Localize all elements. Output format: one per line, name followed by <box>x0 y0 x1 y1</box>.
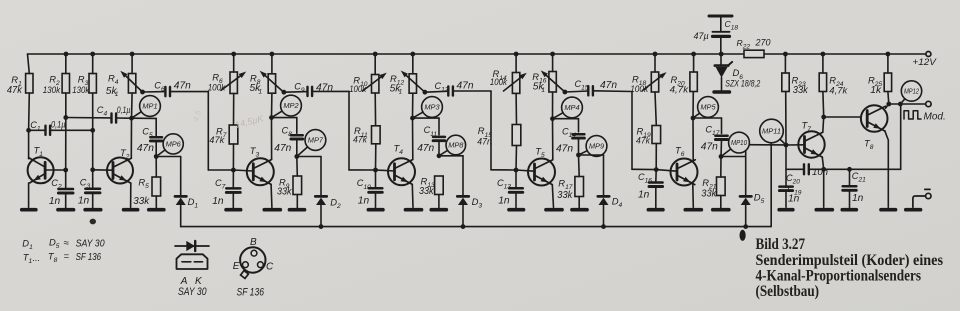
wire D2 to bus <box>319 205 324 229</box>
ground (T4 emitter) <box>406 208 422 212</box>
wire C11 to node <box>437 141 442 158</box>
wire T4 base <box>376 170 395 171</box>
wire diode bus (sync line) <box>181 143 772 227</box>
wire D3 to bus <box>461 205 466 229</box>
measure point MP3 <box>413 97 443 119</box>
capacitor C18 47u (electrolytic to supply) <box>709 16 732 54</box>
label R14 100k <box>490 68 508 88</box>
label R1 47k <box>7 74 23 96</box>
wire C17 to node <box>719 140 724 159</box>
label T1 <box>34 145 44 159</box>
svg-text:MP8: MP8 <box>448 141 464 150</box>
resistor R20 4,7k <box>690 72 697 92</box>
ground (R5) <box>149 208 164 212</box>
svg-text:33k: 33k <box>701 188 717 199</box>
capacitor C15 47n (coupling) <box>565 86 632 95</box>
wire R10-R11 column <box>373 52 378 126</box>
symbol square wave + label Mod. <box>904 111 946 123</box>
wire T5 emitter <box>552 185 553 208</box>
svg-text:1n: 1n <box>78 196 90 207</box>
label T5 <box>535 145 545 159</box>
wire T5 base <box>516 170 535 171</box>
capacitor C13 1n <box>509 170 523 192</box>
wire T8 base <box>824 116 861 118</box>
wire C6 to T3 base network <box>208 92 233 170</box>
measure point MP10 <box>721 132 749 156</box>
label C15 47n <box>575 79 618 92</box>
resistor R24 4,7k <box>819 73 826 92</box>
resistor R5 33k <box>152 177 161 196</box>
label C1 0,1u <box>30 120 66 133</box>
terminal battery minus <box>913 189 931 207</box>
svg-text:47k: 47k <box>353 135 368 146</box>
transistor T5 <box>528 159 555 186</box>
svg-text:SF 136: SF 136 <box>76 252 102 263</box>
svg-text:47k: 47k <box>636 135 651 146</box>
wire T6 collector column <box>691 92 696 160</box>
wire C21 to ground <box>849 191 851 209</box>
resistor R15 47n <box>512 125 521 146</box>
measure point MP4 <box>553 97 583 119</box>
label R2 130k <box>43 73 62 96</box>
wire R24 top <box>821 52 826 73</box>
label C2 1n <box>49 178 62 207</box>
ground (R21) <box>713 208 729 212</box>
capacitor C6 47n (coupling) <box>143 87 209 96</box>
wire T4 collector column <box>410 93 415 159</box>
capacitor C9 47n (coupling) <box>284 87 349 96</box>
measure point MP2 <box>272 95 302 117</box>
wire C20/C21 emitter bus <box>824 167 901 172</box>
label C17 47n <box>701 124 720 152</box>
potentiometer R18 100k <box>642 72 666 92</box>
resistor R7 47k <box>229 125 238 144</box>
label C11 47n <box>417 125 437 154</box>
resistor R23 33k <box>782 73 789 92</box>
ground (C7) <box>226 208 241 212</box>
wire R18-R19 column <box>653 52 658 126</box>
node C5 branch <box>132 118 157 136</box>
wire C9 to T4 base network <box>349 91 376 170</box>
svg-text:1k: 1k <box>870 85 882 96</box>
potentiometer R16 5k1 <box>541 70 565 92</box>
label C18 47u <box>694 19 739 41</box>
capacitor C20 10n (with wire) <box>786 164 824 174</box>
label C14 47n <box>556 126 576 154</box>
label R10 100k <box>349 75 368 96</box>
svg-text:Mod.: Mod. <box>924 112 946 123</box>
ground (T6 emitter) <box>685 208 701 212</box>
svg-text:47n: 47n <box>174 81 191 92</box>
measure point MP9 <box>579 136 607 157</box>
resistor R11 47k <box>372 126 381 144</box>
wire +12V supply rail <box>28 53 926 55</box>
measure point MP11 <box>760 119 786 145</box>
ground (T3 emitter) <box>264 208 280 212</box>
svg-text:33k: 33k <box>133 196 150 207</box>
resistor R13 33k <box>435 176 444 195</box>
wire R15 to T5 base <box>514 146 519 173</box>
capacitor C11 47n <box>433 137 445 141</box>
resistor R17 33k <box>575 177 584 197</box>
svg-text:≈: ≈ <box>64 238 70 249</box>
label R8 5k1 <box>250 73 263 96</box>
ground (battery minus) <box>906 208 921 212</box>
node R4 wiper <box>140 90 145 95</box>
svg-text:1: 1 <box>115 91 119 98</box>
svg-text:B: B <box>250 237 257 248</box>
svg-text:130k: 130k <box>72 85 90 96</box>
node R12 wiper <box>423 90 428 95</box>
transistor T4 <box>388 158 415 185</box>
svg-text:MP2: MP2 <box>283 101 298 110</box>
capacitor C14 47n <box>573 134 585 138</box>
svg-text:0,1µ: 0,1µ <box>117 105 131 116</box>
wire to D2 <box>297 157 321 195</box>
svg-text:33k: 33k <box>793 85 809 96</box>
ground (T2 emitter) <box>124 208 138 212</box>
wire D5 to bus <box>743 205 748 229</box>
label R25 1k <box>868 75 882 96</box>
resistor R3 130k <box>89 74 96 94</box>
label C9 47n <box>294 82 333 95</box>
wire R9 column <box>296 157 299 209</box>
svg-text:MP3: MP3 <box>424 103 440 112</box>
svg-text:1n: 1n <box>852 193 864 204</box>
wire T3 collector column <box>269 93 274 159</box>
ground (C3) <box>85 208 101 212</box>
label R20 4,7k <box>670 74 690 96</box>
label R22 270 <box>737 38 771 51</box>
wire R13 column <box>438 195 440 209</box>
wire to D1 <box>156 157 181 197</box>
svg-text:MP9: MP9 <box>589 142 604 151</box>
wire R2/T1-base column <box>63 52 68 189</box>
node C14 branch <box>553 119 579 132</box>
label R3 130k <box>72 73 90 96</box>
wire R17 column <box>578 155 581 208</box>
zener diode D6 SZX18/8,2 <box>715 52 732 91</box>
label D2 <box>330 196 341 210</box>
label C5 47n <box>137 127 154 155</box>
terminal Mod output <box>926 101 931 106</box>
label T4 <box>394 143 404 157</box>
diode D3 <box>457 196 468 205</box>
svg-text:47n: 47n <box>701 141 718 152</box>
ground (T1 emitter) <box>22 208 36 212</box>
label R24 4,7k <box>829 75 848 97</box>
wire R20 top <box>691 52 696 72</box>
capacitor C8 47n <box>291 135 303 139</box>
capacitor C2 1n <box>58 189 73 193</box>
node C8 branch <box>272 118 297 134</box>
ground (C16) <box>648 208 663 212</box>
svg-text:100k: 100k <box>490 77 508 88</box>
capacitor C5 47n <box>150 137 162 141</box>
svg-text:47n: 47n <box>316 82 333 93</box>
wire R25 top <box>886 52 891 73</box>
svg-text:47k: 47k <box>7 85 23 96</box>
transistor T6 <box>671 159 698 186</box>
svg-text:270: 270 <box>755 38 771 48</box>
node C17 branch <box>693 118 722 133</box>
wire T5 collector column <box>550 92 555 160</box>
wire T2 base <box>93 169 113 171</box>
ground (T8 emitter) <box>881 208 896 212</box>
label R15 47n <box>477 125 492 147</box>
label D3 <box>472 196 483 210</box>
svg-text:47n: 47n <box>417 143 434 154</box>
svg-text:1n: 1n <box>638 189 650 200</box>
measure point MP1 <box>132 96 161 119</box>
wire R8 top <box>270 52 275 74</box>
wire R21 column <box>720 157 722 209</box>
svg-text:1n: 1n <box>498 195 510 206</box>
wire T7 collector to node <box>821 92 826 133</box>
symbol SAY30 diode <box>175 241 209 251</box>
ground (C13) <box>509 208 524 212</box>
svg-text:MP1: MP1 <box>142 102 157 111</box>
svg-text:1n: 1n <box>49 196 61 207</box>
wire Mod output <box>889 102 926 107</box>
svg-text:47n: 47n <box>477 136 492 147</box>
label R17 33k <box>557 177 573 201</box>
label D6 SZX 18/8,2 <box>725 67 760 88</box>
capacitor C7 1n <box>226 170 240 192</box>
resistor R25 1k <box>884 73 891 92</box>
label C19 1n <box>788 184 802 205</box>
svg-text:MP12: MP12 <box>904 89 919 96</box>
svg-text:100k: 100k <box>630 84 649 95</box>
label T7 <box>802 119 812 133</box>
label C16 1n <box>638 172 652 201</box>
wire output feedback <box>900 104 902 169</box>
label C7 1n <box>212 178 225 207</box>
wire C8 to node <box>294 139 299 159</box>
svg-text:=: = <box>64 251 70 262</box>
label C3 1n <box>78 178 91 207</box>
capacitor C1 0,1u (cross-coupling) <box>29 126 93 135</box>
wire C2 to ground <box>65 193 67 208</box>
svg-text:MP7: MP7 <box>308 136 324 145</box>
wire T7 emitter <box>821 157 826 207</box>
svg-text:0,1µ: 0,1µ <box>51 120 66 131</box>
capacitor C17 4,7n <box>715 136 727 140</box>
wire C13 to ground <box>515 193 517 209</box>
svg-text:MP6: MP6 <box>166 140 182 149</box>
measure point MP12 <box>900 81 921 104</box>
ground (T7 emitter) <box>816 208 832 212</box>
capacitor C4 0,1u (cross-coupling) <box>66 113 134 122</box>
resistor R9 33k <box>293 176 302 195</box>
label T8 <box>864 138 874 152</box>
capacitor C10 1n <box>369 170 383 192</box>
wire T4 emitter <box>411 184 414 207</box>
svg-text:100k: 100k <box>349 84 367 95</box>
wire to D5 and T7 base <box>721 145 786 195</box>
wire D1 to bus <box>180 205 182 226</box>
wire T1 collector column (R1) <box>26 54 31 159</box>
svg-text:1n: 1n <box>212 196 224 207</box>
svg-text:33k: 33k <box>277 187 292 198</box>
ground (T5 emitter) <box>546 208 562 212</box>
wire C19 to ground <box>785 192 787 208</box>
legend transistors T1..T8 = SF136 <box>23 251 102 265</box>
wire C3 to ground <box>92 193 94 208</box>
terminal +12V <box>912 52 937 69</box>
ground (C2) <box>58 208 74 212</box>
capacitor C12 47n (coupling) <box>425 86 491 95</box>
svg-text:4,7k: 4,7k <box>670 85 690 96</box>
label R21 33k <box>701 177 717 199</box>
label D1 <box>188 196 199 210</box>
wire R12 top <box>410 52 415 74</box>
svg-text:4,7k: 4,7k <box>829 85 848 96</box>
label R13 33k <box>419 176 435 197</box>
svg-text:C: C <box>266 262 274 273</box>
svg-text:1: 1 <box>541 87 545 94</box>
svg-text:100k: 100k <box>208 82 227 93</box>
ground (below D6) <box>714 90 730 93</box>
svg-text:+12V: +12V <box>912 57 937 68</box>
svg-text:47n: 47n <box>556 144 573 155</box>
wire R3/T2-base column <box>90 52 95 189</box>
svg-text:...: ... <box>33 253 41 263</box>
svg-text:(Selbstbau): (Selbstbau) <box>756 281 820 300</box>
svg-text:SF 136: SF 136 <box>237 287 265 299</box>
label C10 1n <box>357 178 371 206</box>
label R5 33k <box>133 177 150 208</box>
svg-text:1n: 1n <box>788 193 800 204</box>
label C13 1n <box>497 178 511 207</box>
svg-text:47n: 47n <box>457 81 474 92</box>
legend diodes D1..D5 = SAY30 <box>22 237 105 251</box>
wire R14-R15 column <box>514 52 519 125</box>
wire R23 column <box>783 52 788 188</box>
measure point MP5 <box>693 97 718 118</box>
label D5 <box>754 191 765 205</box>
node R16 wiper <box>563 90 568 95</box>
wire R5 column <box>155 157 157 209</box>
scan artifact mark <box>740 230 746 241</box>
label T3 <box>250 145 260 159</box>
capacitor C3 1n <box>85 189 100 193</box>
label R6 100k <box>208 72 227 94</box>
svg-text:47n: 47n <box>137 143 154 154</box>
diode D5 <box>740 196 751 205</box>
resistor R1 47k <box>26 74 33 94</box>
capacitor C16 1n <box>649 170 663 187</box>
symbol SF136 package <box>240 247 265 278</box>
symbol SAY30 package outline <box>177 254 208 269</box>
ground (R17) <box>572 208 587 212</box>
wire T7 base <box>786 144 805 146</box>
label C8 47n <box>274 125 292 154</box>
wire T3 base <box>233 170 253 171</box>
wire R7 to T3 base <box>231 144 236 172</box>
svg-text:130k: 130k <box>43 85 62 96</box>
wire to D4 <box>579 155 604 195</box>
potentiometer R10 100k <box>363 73 387 93</box>
label R19 47k <box>636 126 651 147</box>
wire R4 column (T2 collector) <box>130 52 135 159</box>
svg-text:47n: 47n <box>274 143 291 154</box>
diode D4 <box>598 196 609 205</box>
resistor R2 130k <box>62 74 69 94</box>
svg-text:47µ: 47µ <box>694 31 709 41</box>
caption Bild 3.27 <box>756 234 944 300</box>
transistor T2 <box>107 158 133 184</box>
svg-text:E: E <box>233 261 240 272</box>
label D4 <box>612 196 623 210</box>
label C20 10n <box>786 167 828 186</box>
svg-text:47n: 47n <box>600 80 617 91</box>
node C11 branch <box>413 118 440 135</box>
transistor T3 <box>247 158 274 185</box>
label SF136 pins B E C <box>233 237 274 273</box>
svg-text:SAY 30: SAY 30 <box>76 239 105 250</box>
transistor T8 <box>861 105 888 132</box>
label R9 33k <box>277 176 292 197</box>
diode D1 <box>175 196 186 205</box>
wire T8 emitter to ground <box>885 131 889 208</box>
label SF 136 <box>237 287 265 299</box>
svg-text:MP11: MP11 <box>762 127 781 136</box>
label C4 0,1u <box>97 105 131 118</box>
label SAY 30 <box>178 286 207 298</box>
wire R11 to T4 base <box>373 144 378 173</box>
ground (R13) <box>431 208 446 212</box>
label T2 <box>120 147 130 161</box>
label R12 5k1 <box>390 73 405 96</box>
measure point MP8 <box>439 135 466 156</box>
wire to D3 <box>439 156 463 195</box>
wire C5 to node <box>154 141 159 159</box>
label C6 47n <box>154 80 191 93</box>
ground (C21) <box>842 208 856 212</box>
ground (R9) <box>290 208 305 212</box>
transistor T1 <box>28 157 54 183</box>
label R11 47k <box>353 125 368 145</box>
transistor T7 <box>798 131 824 157</box>
svg-text:47k: 47k <box>209 135 225 146</box>
svg-text:1n: 1n <box>358 196 370 207</box>
wire T1 collector/emitter leads <box>28 158 31 207</box>
wire C15 to T6 base network <box>632 92 656 170</box>
svg-text:SAY 30: SAY 30 <box>178 286 207 298</box>
resistor R19 47k <box>652 126 661 144</box>
label R23 33k <box>792 75 809 96</box>
wire T1 base to node <box>45 168 68 173</box>
svg-text:33k: 33k <box>557 190 573 201</box>
wire T6 emitter <box>692 185 695 208</box>
wire T3 emitter <box>270 184 273 207</box>
potentiometer R8 5k1 <box>260 71 284 94</box>
label R4 5k1 <box>106 73 119 97</box>
label C21 1n <box>852 171 866 204</box>
resistor R22 270 (series in rail) <box>744 50 764 57</box>
measure point MP6 <box>156 134 183 157</box>
ground (C10) <box>368 208 383 212</box>
potentiometer R6 100k <box>221 72 246 94</box>
capacitor C19 1n <box>779 187 792 191</box>
wire R6-R7 column <box>231 52 236 126</box>
potentiometer R4 5k1 <box>120 71 142 93</box>
svg-text:1: 1 <box>399 89 403 96</box>
wire C10 to ground <box>375 193 377 209</box>
wire C7 to ground <box>232 193 234 209</box>
label R4 5k1 subscript <box>115 91 119 98</box>
